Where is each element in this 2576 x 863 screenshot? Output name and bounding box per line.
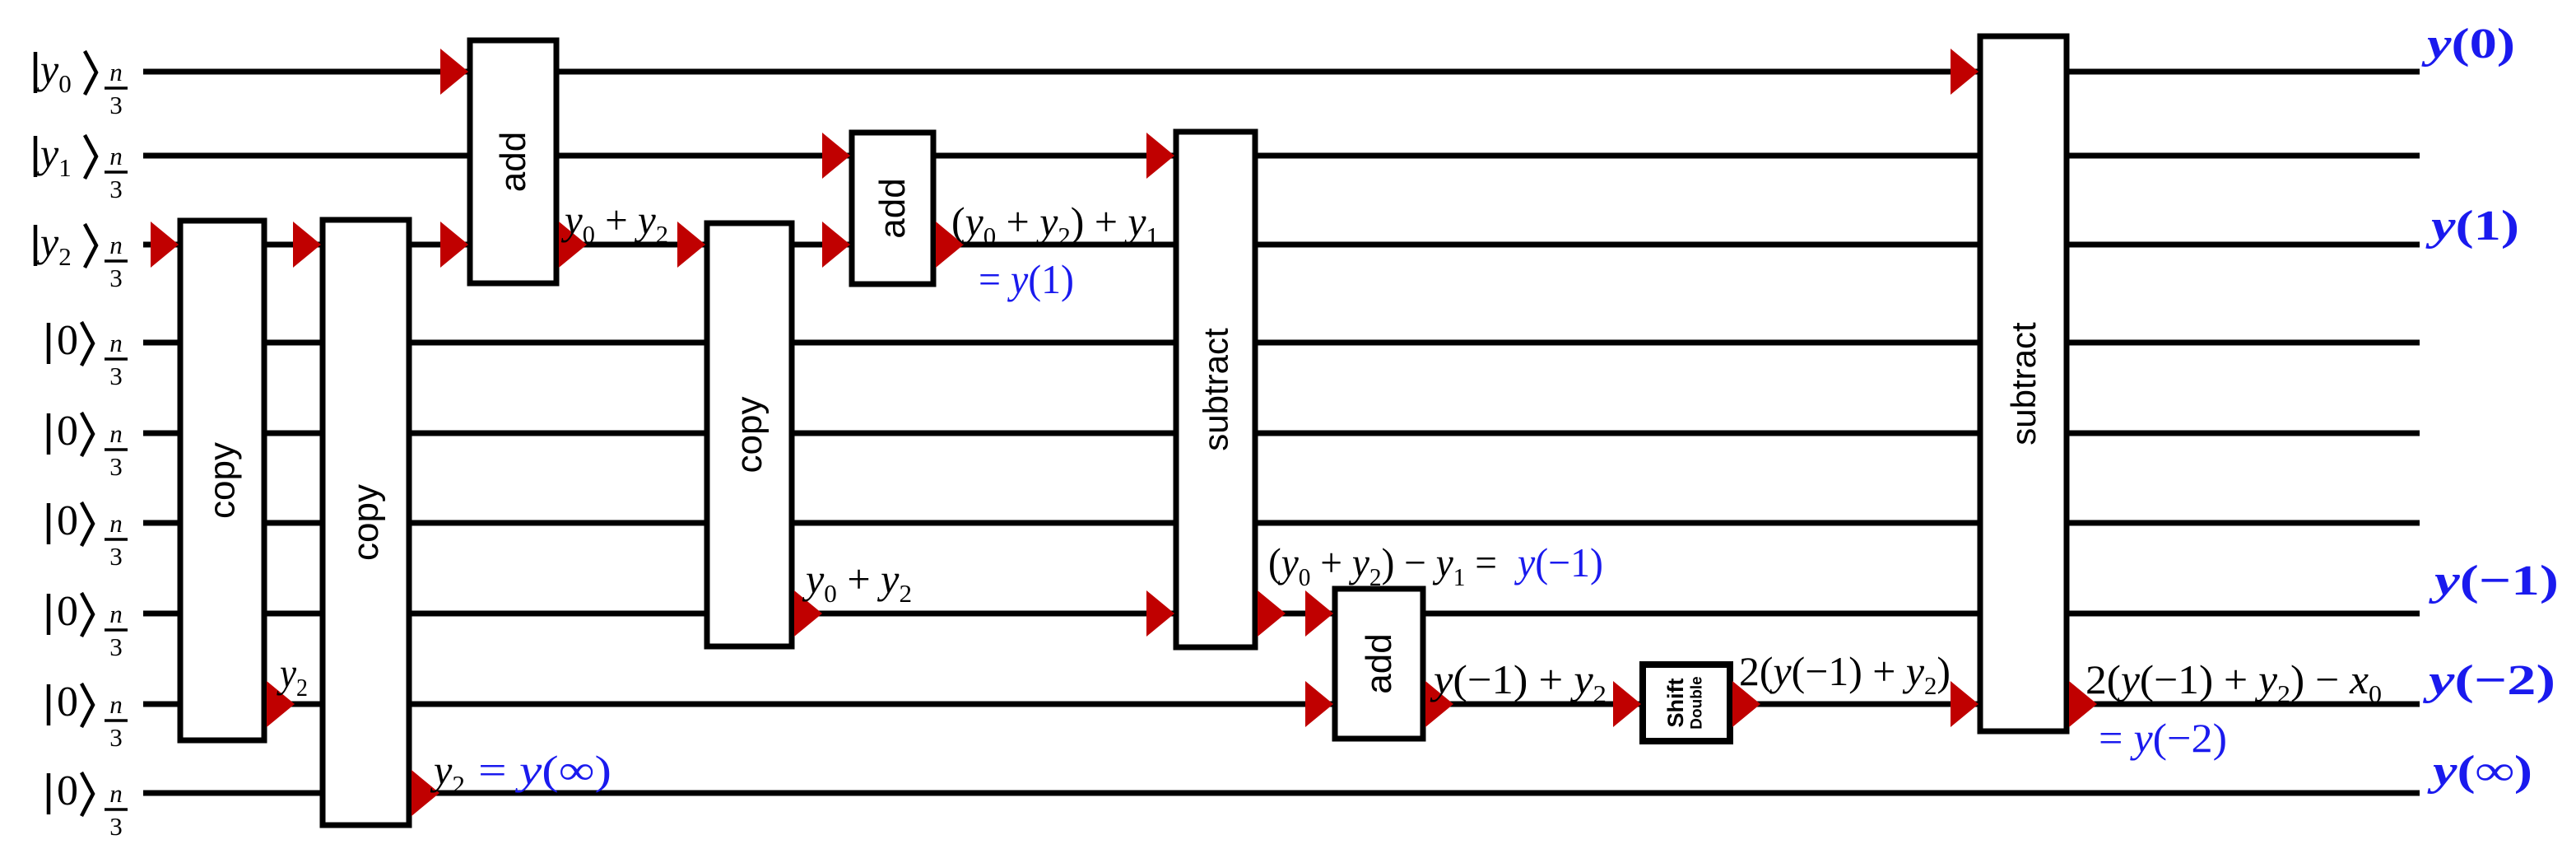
arrow into subtract1 bottom (wire 7): [1146, 590, 1174, 637]
arrow into shift-double (wire 8): [1613, 681, 1641, 727]
wire 8: [143, 702, 2420, 707]
svg-text:3: 3: [109, 632, 123, 661]
arrow into copy3 (wire 3): [677, 222, 705, 268]
svg-text:n: n: [109, 690, 123, 719]
svg-text:= y(∞): = y(∞): [478, 747, 611, 793]
svg-text:n: n: [109, 329, 123, 357]
box add2: [852, 133, 933, 284]
svg-text:0: 0: [57, 679, 78, 725]
input ket label wire 1: [35, 46, 128, 119]
svg-text:3: 3: [109, 264, 123, 292]
svg-text:3: 3: [109, 542, 123, 571]
arrow out of copy2 (wire 9): [412, 770, 439, 816]
arrow into subtract1 top (wire 2): [1146, 133, 1174, 179]
input ket label wire 2: [35, 130, 128, 203]
arrow out of shift-double (wire 8): [1732, 681, 1760, 727]
svg-text:n: n: [109, 58, 123, 86]
svg-text:2(y(−1) + y2): 2(y(−1) + y2): [1739, 648, 1951, 700]
svg-text:n: n: [109, 779, 123, 808]
input ket label wire 3: [35, 219, 128, 292]
arrow out of subtract1 (wire 7): [1258, 590, 1286, 637]
svg-text:copy: copy: [346, 484, 386, 561]
arrow into add1 bottom (wire 3): [440, 222, 468, 268]
arrow into add3 bottom (wire 8): [1305, 681, 1333, 727]
wire 6: [143, 520, 2420, 526]
svg-text:(y0 + y2) + y1: (y0 + y2) + y1: [951, 198, 1159, 250]
arrow out of copy1 (wire 8): [267, 681, 295, 727]
svg-text:subtract: subtract: [1197, 328, 1235, 451]
input ket label wire 7: [49, 588, 128, 661]
svg-text:add: add: [1359, 633, 1399, 693]
svg-text:y(−2): y(−2): [2422, 657, 2555, 704]
box copy2: [323, 220, 409, 825]
svg-text:y(1): y(1): [2425, 203, 2519, 250]
arrow into add1 top (wire 1): [440, 49, 468, 95]
svg-text:n: n: [109, 599, 123, 628]
wire 3: [143, 242, 2420, 248]
wire 9: [143, 791, 2420, 796]
svg-text:0: 0: [57, 497, 78, 544]
arrow out of subtract2 (wire 8): [2069, 681, 2097, 727]
arrow into add3 top (wire 7): [1305, 590, 1333, 637]
svg-text:n: n: [109, 142, 123, 170]
svg-text:3: 3: [109, 812, 123, 841]
svg-text:3: 3: [109, 91, 123, 119]
svg-text:y(∞): y(∞): [2426, 748, 2532, 795]
wire 1: [143, 69, 2420, 75]
svg-text:add: add: [493, 132, 533, 192]
input ket label wire 5: [49, 408, 128, 481]
svg-text:n: n: [109, 231, 123, 259]
svg-text:add: add: [872, 178, 913, 238]
svg-text:n: n: [109, 509, 123, 538]
svg-text:y(0): y(0): [2420, 21, 2515, 68]
svg-text:= y(1): = y(1): [979, 256, 1074, 302]
svg-text:Double: Double: [1689, 676, 1706, 729]
svg-text:subtract: subtract: [2004, 322, 2043, 445]
svg-text:copy: copy: [202, 442, 243, 519]
svg-text:0: 0: [57, 588, 78, 635]
box add3: [1335, 589, 1423, 739]
svg-text:y(−1) + y2: y(−1) + y2: [1430, 656, 1607, 708]
input ket label wire 4: [49, 317, 128, 390]
svg-text:2(y(−1) + y2) − x0: 2(y(−1) + y2) − x0: [2085, 656, 2382, 708]
box subtract2: [1980, 36, 2067, 731]
box copy1: [180, 221, 264, 740]
arrow out of add1 (wire 3): [559, 222, 587, 268]
arrow into add2 top (wire 2): [822, 133, 850, 179]
wire 7: [143, 611, 2420, 617]
arrow out of copy3 (wire 7): [794, 590, 822, 637]
svg-text:copy: copy: [729, 397, 770, 473]
arrow out of add2 (wire 3): [936, 222, 964, 268]
svg-text:y(−1): y(−1): [1514, 539, 1603, 585]
svg-text:n: n: [109, 419, 123, 448]
box subtract1: [1176, 132, 1255, 647]
svg-text:Shift: Shift: [1663, 679, 1688, 728]
svg-text:0: 0: [57, 317, 78, 364]
input ket label wire 6: [49, 497, 128, 571]
wire 2: [143, 153, 2420, 159]
arrow into copy2 (wire 3): [293, 222, 321, 268]
box copy3: [707, 223, 792, 646]
arrow into copy1 (wire 3): [151, 222, 179, 268]
arrow into subtract2 bottom (wire 8): [1951, 681, 1978, 727]
svg-text:3: 3: [109, 175, 123, 203]
svg-text:3: 3: [109, 723, 123, 752]
input ket label wire 8: [49, 679, 128, 752]
svg-text:y0 + y2: y0 + y2: [802, 556, 912, 608]
arrow into add2 bottom (wire 3): [822, 222, 850, 268]
wire 5: [143, 431, 2420, 436]
wire 4: [143, 340, 2420, 346]
svg-text:y(−1): y(−1): [2428, 557, 2559, 604]
svg-text:3: 3: [109, 452, 123, 481]
input ket label wire 9: [49, 767, 128, 841]
svg-text:3: 3: [109, 362, 123, 390]
svg-text:0: 0: [57, 767, 78, 814]
arrow into subtract2 top (wire 1): [1951, 49, 1978, 95]
svg-text:= y(−2): = y(−2): [2099, 715, 2227, 761]
arrow out of add3 (wire 8): [1425, 681, 1453, 727]
svg-text:y0 + y2: y0 + y2: [560, 197, 668, 249]
box add1: [470, 40, 556, 283]
box shift: [1643, 665, 1730, 741]
svg-text:0: 0: [57, 408, 78, 455]
